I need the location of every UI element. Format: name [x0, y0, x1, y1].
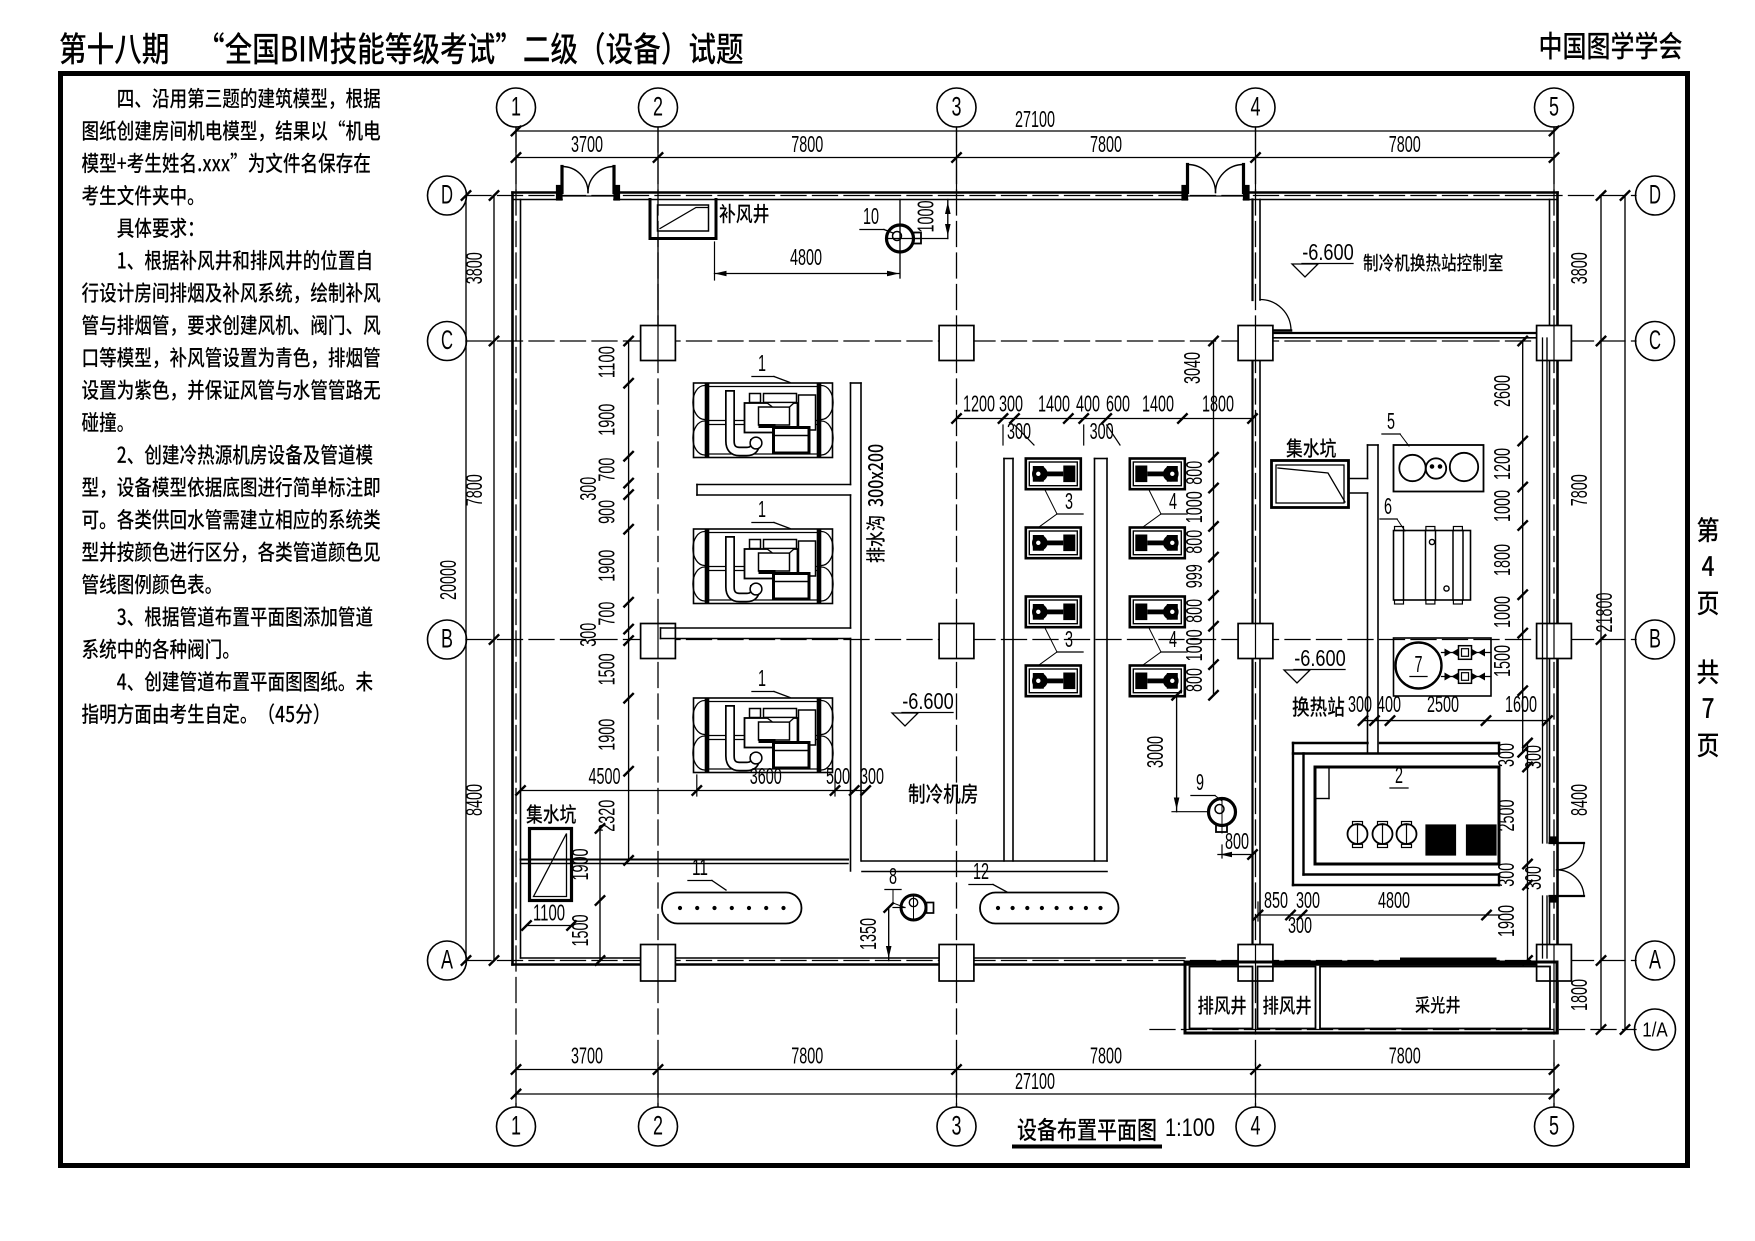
svg-text:A: A [1649, 945, 1661, 975]
grid bubble 2 top [639, 88, 678, 127]
svg-text:3800: 3800 [1566, 252, 1592, 284]
svg-text:300: 300 [1288, 912, 1312, 938]
hx sump pit label [1286, 438, 1335, 458]
svg-text:1600: 1600 [1505, 691, 1537, 717]
instruction paragraph [82, 88, 380, 724]
svg-text:3: 3 [1065, 488, 1073, 514]
svg-text:C: C [1649, 325, 1661, 355]
hx sump pit connector [1349, 479, 1368, 494]
axis line 1/A [1150, 1029, 1636, 1031]
equipment 2 tanks [1348, 822, 1497, 856]
grid bubble D left [428, 176, 467, 215]
column B2 [641, 624, 676, 659]
pump 8 label [885, 863, 905, 908]
svg-text:5: 5 [1549, 92, 1559, 122]
axis line 5 [1553, 127, 1555, 1107]
column B5 [1537, 624, 1572, 659]
svg-text:2: 2 [653, 1111, 663, 1141]
chiller unit 1 #1 [693, 383, 833, 458]
pump item3 #3 [1026, 597, 1081, 628]
wall machine room south [521, 860, 849, 864]
svg-text:300: 300 [575, 477, 601, 501]
svg-text:800: 800 [1181, 668, 1207, 692]
svg-text:7800: 7800 [791, 131, 823, 157]
wall top inner [513, 199, 563, 201]
exhaust shaft 2 box [1258, 967, 1316, 1029]
svg-text:4: 4 [1251, 92, 1261, 122]
door top-left double [557, 167, 620, 201]
daylight shaft box [1320, 967, 1550, 1029]
svg-text:700: 700 [594, 602, 620, 626]
sump pit bottom-left [522, 804, 576, 930]
column C3 [939, 326, 974, 361]
exhaust shaft 1 label [1198, 996, 1246, 1015]
svg-text:300: 300 [860, 763, 884, 789]
svg-text:6: 6 [1384, 493, 1392, 519]
svg-text:4: 4 [1169, 488, 1177, 514]
grid bubble 3 bottom [937, 1107, 976, 1146]
svg-text:8400: 8400 [1566, 784, 1592, 816]
axis line 4 [1255, 127, 1257, 1107]
tank 12 [980, 893, 1119, 924]
grid bubble B right [1636, 620, 1675, 659]
svg-text:1/A: 1/A [1642, 1020, 1668, 1042]
svg-text:1000: 1000 [1489, 596, 1515, 628]
svg-text:1900: 1900 [594, 550, 620, 582]
svg-text:900: 900 [594, 500, 620, 524]
column C2 [641, 326, 676, 361]
pipe trench rail 1 [1004, 459, 1013, 862]
dimension 2320 [594, 771, 633, 865]
svg-text:1400: 1400 [1142, 391, 1174, 417]
machine room label [909, 783, 978, 804]
wall top outer [614, 191, 1188, 194]
svg-text:1400: 1400 [1038, 391, 1070, 417]
pump 10 symbol [886, 200, 921, 279]
pump 10 label [860, 203, 893, 233]
svg-text:300: 300 [1493, 863, 1519, 887]
pipe trench rail 2 [1095, 459, 1108, 862]
level mark -6.600 hx station [1284, 645, 1346, 683]
pump item3 #2 [1026, 528, 1081, 559]
svg-text:7800: 7800 [1389, 131, 1421, 157]
drain branch channel 2 [661, 628, 851, 639]
svg-text:300: 300 [1493, 743, 1519, 767]
svg-text:1000: 1000 [1489, 490, 1515, 522]
svg-text:1200: 1200 [1489, 448, 1515, 480]
dimension top total 27100 [512, 106, 1559, 135]
supply air shaft box [650, 200, 716, 239]
svg-text:3040: 3040 [1179, 352, 1205, 384]
wall control room south [1260, 333, 1550, 338]
axis line 3 [956, 127, 958, 1107]
pump 8 symbol [901, 895, 934, 920]
dimension chain pump rows [1179, 337, 1218, 700]
svg-text:300: 300 [1520, 745, 1546, 769]
wall right [1550, 193, 1558, 1034]
svg-text:D: D [441, 180, 453, 210]
wall left [513, 193, 521, 965]
axis line D [466, 195, 1636, 197]
grid bubble C right [1636, 322, 1675, 361]
dimension right total 21800 [1591, 191, 1629, 1034]
svg-text:-6.600: -6.600 [1302, 239, 1354, 265]
grid bubble 4 bottom [1236, 1107, 1275, 1146]
svg-text:3: 3 [1065, 626, 1073, 652]
svg-text:11: 11 [692, 854, 708, 880]
hx station channel vertical [1368, 445, 1379, 753]
svg-text:1900: 1900 [1493, 905, 1519, 937]
wall column-4 line [1253, 200, 1261, 959]
drain channel vertical [851, 383, 862, 871]
dimension 300 gaps right [1520, 745, 1546, 890]
dimension bottom segments [512, 1043, 1559, 1108]
svg-text:1800: 1800 [1202, 391, 1234, 417]
axis line B [466, 639, 1636, 641]
wall top outer [1244, 191, 1558, 194]
svg-text:2320: 2320 [594, 800, 620, 832]
dimension pit 1900/1500 [567, 824, 604, 965]
svg-text:3: 3 [952, 1111, 962, 1141]
svg-text:-6.600: -6.600 [902, 688, 954, 714]
daylight shaft label [1415, 996, 1459, 1014]
column A4 [1238, 945, 1273, 982]
chiller label 1 #2 [752, 496, 790, 529]
pump item3 #4 [1026, 666, 1081, 697]
equipment 5 label [1382, 408, 1409, 446]
svg-text:3000: 3000 [1142, 736, 1168, 768]
svg-text:27100: 27100 [1015, 1068, 1055, 1094]
grid bubble B left [428, 620, 467, 659]
svg-text:7800: 7800 [791, 1043, 823, 1069]
pump item3 #1 [1026, 459, 1081, 490]
axis line 2 [657, 127, 659, 1107]
column A5 [1537, 945, 1572, 982]
supply air shaft label [719, 204, 768, 224]
wall top inner [1244, 199, 1558, 201]
column A2 [641, 945, 676, 982]
svg-text:4800: 4800 [790, 244, 822, 270]
dimension chain hx station right [1489, 337, 1527, 757]
title text [60, 32, 743, 65]
daylight shaft thick edge [1402, 958, 1495, 962]
svg-text:1200: 1200 [963, 391, 995, 417]
svg-text:3: 3 [952, 92, 962, 122]
dimension chain room2 bottom [1254, 887, 1499, 938]
svg-text:1500: 1500 [567, 915, 593, 947]
svg-text:400: 400 [1076, 391, 1100, 417]
svg-text:2: 2 [1395, 762, 1403, 788]
svg-text:800: 800 [1181, 530, 1207, 554]
svg-text:4500: 4500 [589, 763, 621, 789]
svg-text:1800: 1800 [1489, 544, 1515, 576]
drawing title [1014, 1114, 1215, 1147]
pump item4 #3 [1130, 597, 1185, 628]
pipe trench bottom [862, 861, 1107, 872]
svg-text:3700: 3700 [571, 1043, 603, 1069]
svg-text:1100: 1100 [594, 346, 620, 378]
dimension chain hx bottom [1348, 691, 1552, 725]
door control room [1260, 300, 1291, 331]
svg-text:4: 4 [1251, 1111, 1261, 1141]
svg-text:7800: 7800 [1566, 474, 1592, 506]
svg-text:8400: 8400 [461, 784, 487, 816]
dimension chain pump area top [952, 391, 1257, 446]
svg-text:1: 1 [758, 350, 766, 376]
svg-text:8: 8 [889, 863, 897, 889]
svg-text:1900: 1900 [594, 404, 620, 436]
svg-text:1:100: 1:100 [1165, 1114, 1215, 1142]
pump label 3 upper [1039, 488, 1083, 527]
svg-text:1500: 1500 [594, 653, 620, 685]
svg-text:300: 300 [1520, 866, 1546, 890]
wall top outer [513, 191, 563, 194]
dimension 1000 at pump 10 [913, 200, 951, 239]
pump item4 #1 [1130, 459, 1185, 490]
door top-middle double [1182, 165, 1249, 201]
svg-text:7800: 7800 [461, 474, 487, 506]
svg-text:4800: 4800 [1378, 887, 1410, 913]
dimension left segments [461, 191, 498, 965]
svg-text:21800: 21800 [1591, 593, 1617, 633]
level mark -6.600 machine room [892, 688, 954, 726]
svg-text:-6.600: -6.600 [1294, 645, 1346, 671]
chiller unit 1 #2 [693, 529, 833, 604]
pump 9 symbol [1209, 798, 1236, 833]
dimension 4800 at top [715, 242, 900, 280]
equipment 2 label [1390, 762, 1408, 788]
svg-text:850: 850 [1264, 887, 1288, 913]
svg-text:A: A [441, 945, 453, 975]
pump 9 label [1191, 769, 1222, 801]
grid bubble 1 top [497, 88, 536, 127]
dimension 1350 at pump 8 [855, 903, 905, 960]
column C5 [1537, 326, 1572, 361]
svg-text:300: 300 [999, 391, 1023, 417]
grid bubble D right [1636, 176, 1675, 215]
dimension chain 4500 3600 500 300 [516, 763, 884, 796]
pump item4 #2 [1130, 528, 1185, 559]
drain channel label [866, 445, 885, 563]
svg-text:1: 1 [758, 665, 766, 691]
axis line 1 [515, 127, 517, 1107]
grid bubble 5 top [1535, 88, 1574, 127]
grid bubble A left [428, 941, 467, 980]
svg-text:3800: 3800 [461, 252, 487, 284]
wall bottom A [513, 958, 1558, 965]
svg-text:B: B [441, 624, 453, 654]
svg-text:300: 300 [575, 623, 601, 647]
dimension chain chiller column [575, 337, 633, 776]
svg-text:10: 10 [863, 203, 879, 229]
svg-text:300: 300 [1296, 887, 1320, 913]
svg-text:2: 2 [653, 92, 663, 122]
exhaust shaft 1 box [1190, 967, 1253, 1029]
column B3 [939, 624, 974, 659]
grid bubble 4 top [1236, 88, 1275, 127]
pump label 3 lower [1039, 626, 1083, 665]
svg-text:27100: 27100 [1015, 106, 1055, 132]
door bottom-right double [1550, 837, 1585, 902]
svg-text:9: 9 [1196, 769, 1204, 795]
column C4 [1238, 326, 1273, 361]
room2 channel bottom [1293, 875, 1499, 886]
dimension right segments [1566, 191, 1605, 1034]
svg-text:3600: 3600 [750, 763, 782, 789]
svg-text:B: B [1649, 624, 1661, 654]
svg-text:4: 4 [1169, 626, 1177, 652]
svg-text:300: 300 [1007, 418, 1031, 444]
svg-text:5: 5 [1549, 1111, 1559, 1141]
hx sump pit [1272, 461, 1349, 508]
tank 11 [662, 893, 802, 924]
axis line C [466, 340, 1636, 342]
pump label 4 lower [1143, 626, 1187, 665]
pump label 4 upper [1143, 488, 1187, 527]
axis line A [466, 960, 1636, 962]
dimension chain room2 right [1493, 739, 1532, 965]
grid bubble A right [1636, 941, 1675, 980]
grid bubble 1/A right [1635, 1009, 1676, 1050]
svg-text:500: 500 [826, 763, 850, 789]
pump item4 #4 [1130, 666, 1185, 697]
grid bubble 5 bottom [1535, 1107, 1574, 1146]
dimension left total 20000 [435, 191, 470, 965]
chiller label 1 #3 [752, 665, 790, 698]
control room label [1363, 253, 1502, 271]
drain branch channel 1 [697, 485, 851, 496]
equipment 7 box [1394, 638, 1492, 696]
svg-text:1100: 1100 [533, 900, 565, 926]
column B4 [1238, 624, 1273, 659]
svg-text:1800: 1800 [1566, 979, 1592, 1011]
equipment 6 label [1380, 493, 1405, 531]
svg-text:2600: 2600 [1489, 375, 1515, 407]
tank 12 label [969, 858, 1007, 892]
chiller label 1 #1 [752, 350, 790, 383]
dimension 800 at pump 9 [1218, 828, 1257, 859]
svg-text:20000: 20000 [435, 560, 461, 600]
svg-text:C: C [441, 325, 453, 355]
chiller unit 1 #3 [693, 698, 833, 773]
svg-text:2500: 2500 [1493, 800, 1519, 832]
svg-text:800: 800 [1225, 828, 1249, 854]
svg-text:2500: 2500 [1427, 691, 1459, 717]
svg-text:3700: 3700 [571, 131, 603, 157]
svg-text:400: 400 [1377, 691, 1401, 717]
tank 11 label [688, 854, 726, 890]
svg-text:1: 1 [511, 1111, 521, 1141]
svg-text:7800: 7800 [1090, 131, 1122, 157]
svg-text:1900: 1900 [594, 719, 620, 751]
svg-text:5: 5 [1387, 408, 1395, 434]
svg-text:800: 800 [1181, 461, 1207, 485]
publisher text [1541, 31, 1682, 59]
grid bubble C left [428, 322, 467, 361]
hx station label [1293, 696, 1345, 717]
room2 channel top [1293, 743, 1499, 754]
equipment 2 room [1315, 767, 1499, 864]
svg-text:D: D [1649, 180, 1661, 210]
svg-text:1000: 1000 [913, 201, 939, 233]
axis 2 solid segment [657, 239, 659, 326]
svg-text:7800: 7800 [1090, 1043, 1122, 1069]
grid bubble 1 bottom [497, 1107, 536, 1146]
svg-text:1000: 1000 [1181, 491, 1207, 523]
svg-text:600: 600 [1106, 391, 1130, 417]
exhaust shaft 2 label [1263, 996, 1311, 1015]
grid bubble 2 bottom [639, 1107, 678, 1146]
level mark -6.600 control room [1292, 239, 1354, 277]
shaft strip outline [1185, 962, 1557, 1033]
hx east interior wall [1543, 338, 1548, 958]
svg-text:1500: 1500 [1489, 645, 1515, 677]
room2 corner notch [1315, 767, 1329, 799]
equipment 5 box [1394, 445, 1484, 492]
dimension bottom total 27100 [512, 1068, 1559, 1098]
svg-text:1350: 1350 [855, 918, 881, 950]
dimension 3000 [1142, 691, 1208, 812]
svg-text:1: 1 [758, 496, 766, 522]
grid bubble 3 top [937, 88, 976, 127]
equipment 6 box [1394, 527, 1471, 605]
svg-text:800: 800 [1181, 599, 1207, 623]
svg-text:1000: 1000 [1181, 629, 1207, 661]
page number text [1697, 517, 1718, 757]
svg-text:1: 1 [511, 92, 521, 122]
room2 channel left [1293, 743, 1304, 885]
svg-text:7: 7 [1415, 651, 1423, 677]
column A3 [939, 945, 974, 982]
dimension top segments [512, 127, 1559, 193]
wall top inner [614, 199, 1188, 201]
svg-text:999: 999 [1181, 564, 1207, 588]
svg-text:300: 300 [1348, 691, 1372, 717]
svg-text:7800: 7800 [1389, 1043, 1421, 1069]
